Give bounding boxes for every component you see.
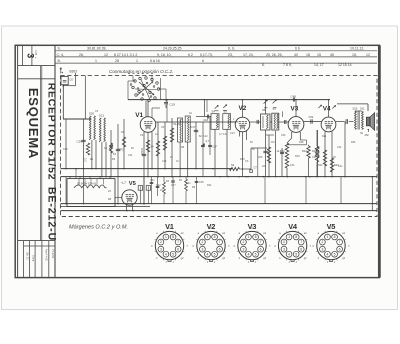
svg-text:7: 7 — [339, 240, 341, 244]
svg-text:15,: 15, — [352, 53, 357, 57]
svg-text:12: 12 — [366, 53, 370, 57]
svg-text:26,: 26, — [79, 53, 84, 57]
svg-text:S2 S4 S4 S2 A A2: S2 S4 S4 S2 A A2 — [77, 182, 97, 185]
svg-text:6, 9,: 6, 9, — [228, 47, 235, 51]
svg-text:S.: S. — [58, 47, 61, 51]
svg-text:8: 8 — [295, 235, 297, 239]
svg-text:Nov.4-4-52: Nov.4-4-52 — [44, 249, 47, 261]
svg-text:0,17-73,: 0,17-73, — [200, 53, 213, 57]
svg-text:C12: C12 — [203, 135, 208, 138]
svg-text:6: 6 — [202, 59, 204, 63]
svg-text:R18: R18 — [299, 141, 304, 144]
svg-text:1: 1 — [288, 235, 290, 239]
svg-text:C41: C41 — [338, 165, 343, 168]
svg-text:2: 2 — [160, 240, 162, 244]
svg-text:C14: C14 — [223, 133, 228, 136]
svg-text:1: 1 — [165, 235, 167, 239]
svg-text:Márgenes O.C.2 y O.M.: Márgenes O.C.2 y O.M. — [69, 224, 128, 230]
svg-text:4: 4 — [165, 252, 167, 256]
svg-text:2: 2 — [321, 240, 323, 244]
svg-text:S6: S6 — [262, 108, 266, 112]
svg-text:ESQUEMA: ESQUEMA — [26, 88, 41, 159]
svg-text:4: 4 — [206, 252, 208, 256]
svg-text:1: 1 — [206, 235, 208, 239]
svg-text:V1: V1 — [135, 112, 143, 119]
svg-text:V4: V4 — [323, 106, 331, 113]
svg-text:7: 7 — [260, 240, 262, 244]
svg-text:B303: B303 — [70, 69, 78, 73]
svg-text:R26: R26 — [351, 141, 356, 144]
svg-text:20, 26, 25,: 20, 26, 25, — [266, 53, 283, 57]
svg-text:C18: C18 — [203, 118, 208, 122]
svg-text:18: 18 — [306, 53, 310, 57]
svg-text:R19: R19 — [295, 155, 300, 158]
svg-text:C35: C35 — [199, 181, 204, 184]
svg-text:C6: C6 — [70, 78, 74, 82]
svg-text:12 15 14: 12 15 14 — [338, 63, 352, 67]
svg-text:6: 6 — [260, 247, 262, 251]
svg-text:1: 1 — [247, 235, 249, 239]
svg-text:C11: C11 — [128, 154, 133, 157]
svg-text:1: 1 — [326, 235, 328, 239]
svg-text:220: 220 — [262, 165, 267, 168]
svg-text:6 2: 6 2 — [188, 53, 193, 57]
svg-text:R21: R21 — [322, 135, 327, 138]
svg-text:6: 6 — [339, 247, 341, 251]
svg-text:7: 7 — [177, 240, 179, 244]
svg-text:B.: B. — [58, 59, 61, 63]
svg-text:RECEPTOR 51/52: RECEPTOR 51/52 — [46, 83, 57, 181]
svg-text:R12: R12 — [302, 149, 307, 153]
svg-text:1: 1 — [136, 59, 138, 63]
svg-text:8 27 14 1 3 1 2: 8 27 14 1 3 1 2 — [114, 53, 137, 57]
svg-text:C52: C52 — [309, 115, 314, 119]
svg-text:3: 3 — [201, 247, 203, 251]
svg-text:C17: C17 — [191, 125, 196, 129]
svg-text:C21: C21 — [150, 179, 155, 182]
svg-text:6: 6 — [177, 247, 179, 251]
svg-text:28: 28 — [115, 59, 119, 63]
svg-text:1M: 1M — [281, 150, 284, 153]
svg-text:30,81,93 28,: 30,81,93 28, — [87, 47, 106, 51]
svg-text:7: 7 — [219, 240, 221, 244]
svg-text:15: 15 — [317, 53, 321, 57]
svg-text:S20: S20 — [89, 112, 95, 116]
svg-text:C13: C13 — [230, 132, 235, 135]
svg-text:5: 5 — [334, 252, 336, 256]
svg-text:C33: C33 — [290, 164, 295, 167]
svg-text:25c: 25c — [365, 133, 370, 137]
svg-text:R23: R23 — [318, 164, 323, 167]
svg-text:S21: S21 — [99, 114, 105, 118]
svg-text:C25: C25 — [162, 160, 167, 163]
svg-text:C: 4,: C: 4, — [57, 53, 64, 57]
svg-text:3: 3 — [242, 247, 244, 251]
svg-text:10000: 10000 — [140, 148, 143, 156]
svg-text:C31: C31 — [186, 182, 191, 185]
svg-text:10,11,12,: 10,11,12, — [350, 47, 364, 51]
svg-text:C22: C22 — [156, 184, 161, 187]
svg-text:5: 5 — [255, 252, 257, 256]
svg-text:45: 45 — [330, 53, 334, 57]
svg-text:C19: C19 — [170, 102, 176, 106]
svg-text:C44: C44 — [337, 146, 342, 149]
svg-text:8: 8 — [334, 235, 336, 239]
svg-text:S11: S11 — [360, 107, 365, 111]
svg-text:C16: C16 — [63, 148, 68, 151]
svg-text:9, 16, 10,: 9, 16, 10, — [157, 53, 172, 57]
svg-text:Comp.: Comp. — [31, 255, 33, 262]
svg-text:BE-212-U: BE-212-U — [46, 187, 58, 241]
svg-text:R22: R22 — [312, 150, 317, 153]
svg-text:CT: CT — [254, 167, 258, 170]
svg-text:4: 4 — [247, 252, 249, 256]
svg-text:C26: C26 — [77, 140, 83, 144]
svg-text:5: 5 — [214, 252, 216, 256]
svg-text:Dib. 21: Dib. 21 — [26, 252, 29, 260]
svg-text:23,: 23, — [228, 53, 233, 57]
svg-text:12: 12 — [104, 53, 108, 57]
svg-text:2,2: 2,2 — [84, 158, 88, 162]
svg-text:4: 4 — [326, 252, 328, 256]
svg-text:3: 3 — [321, 247, 323, 251]
svg-text:6: 6 — [300, 247, 302, 251]
svg-text:V5: V5 — [129, 181, 137, 187]
svg-text:S7: S7 — [273, 107, 277, 111]
svg-text:6.: 6. — [262, 63, 265, 67]
svg-text:8: 8 — [172, 235, 174, 239]
svg-text:S6: S6 — [231, 163, 235, 167]
svg-text:5: 5 — [295, 252, 297, 256]
svg-text:1M: 1M — [271, 141, 274, 144]
svg-text:40: 40 — [294, 53, 298, 57]
svg-text:C30: C30 — [281, 134, 286, 137]
svg-text:3: 3 — [283, 247, 285, 251]
svg-text:24,29,25,25: 24,29,25,25 — [163, 47, 182, 51]
svg-text:S4: S4 — [212, 109, 216, 113]
svg-text:5 A 16: 5 A 16 — [150, 59, 160, 63]
svg-text:3: 3 — [160, 247, 162, 251]
svg-text:6: 6 — [219, 247, 221, 251]
svg-text:+: + — [35, 56, 37, 60]
svg-text:2: 2 — [242, 240, 244, 244]
svg-text:4: 4 — [288, 252, 290, 256]
svg-text:~L7: ~L7 — [121, 181, 127, 185]
svg-text:17, 24,: 17, 24, — [243, 53, 254, 57]
svg-text:S5: S5 — [224, 109, 228, 113]
svg-text:6 6: 6 6 — [295, 47, 300, 51]
svg-text:V3: V3 — [291, 106, 299, 113]
svg-text:2: 2 — [201, 240, 203, 244]
svg-text:4,7: 4,7 — [206, 140, 210, 143]
svg-text:R15: R15 — [258, 156, 263, 159]
svg-text:5: 5 — [172, 252, 174, 256]
svg-text:7 8 9,: 7 8 9, — [283, 63, 292, 67]
svg-text:8: 8 — [255, 235, 257, 239]
svg-text:S10: S10 — [353, 107, 358, 111]
svg-text:7F2: 7F2 — [119, 148, 124, 152]
svg-text:2: 2 — [283, 240, 285, 244]
svg-text:7: 7 — [300, 240, 302, 244]
svg-text:R11: R11 — [207, 184, 212, 187]
svg-text:C27: C27 — [171, 184, 176, 187]
svg-text:C38: C38 — [312, 156, 317, 159]
svg-text:14, 17: 14, 17 — [314, 63, 324, 67]
svg-text:Conmutador en posición O.C.2.: Conmutador en posición O.C.2. — [109, 69, 173, 74]
svg-text:1: 1 — [95, 59, 97, 63]
svg-text:8: 8 — [214, 235, 216, 239]
svg-text:27-6-52: 27-6-52 — [51, 249, 55, 259]
